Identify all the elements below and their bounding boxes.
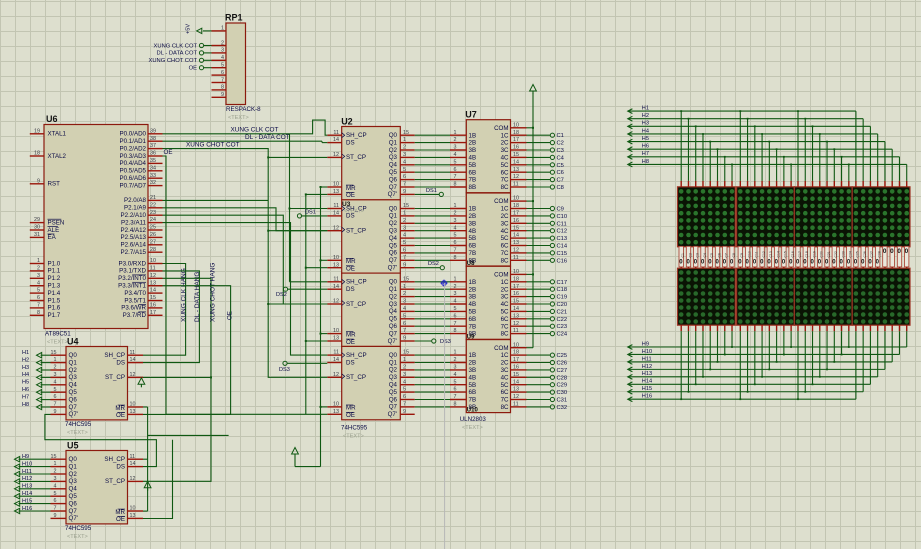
- resistor R22 between matrix strips: [832, 246, 838, 268]
- svg-text:C15: C15: [784, 251, 788, 257]
- resistor R31 between matrix strips: [897, 246, 901, 268]
- wire U2 chip3 Q6 to U7 chip3 7B: [415, 325, 450, 327]
- svg-text:XUNG CLK COT: XUNG CLK COT: [154, 43, 198, 49]
- U6 pin 7 P1.6: [30, 303, 61, 312]
- terminal C9: [527, 206, 564, 212]
- svg-text:DL - DATA COT: DL - DATA COT: [157, 51, 198, 57]
- svg-text:10: 10: [130, 402, 136, 408]
- wire from U6 P2.1 down: [163, 208, 328, 231]
- svg-text:C24: C24: [557, 332, 568, 338]
- U2 chip2 left pin 10: [327, 255, 341, 261]
- wire U2 chip2 Q7 to U7 chip2 8B: [415, 259, 450, 261]
- U4 output Q1 pin 1: [51, 357, 67, 363]
- svg-text:12: 12: [333, 299, 339, 305]
- svg-text:Q0: Q0: [389, 132, 398, 139]
- svg-text:MR: MR: [346, 331, 356, 338]
- svg-text:P1.5: P1.5: [48, 297, 61, 304]
- svg-text:10: 10: [333, 402, 339, 408]
- U2 chip3 output Q5 pin 5: [400, 313, 414, 319]
- svg-text:P0.5/AD5: P0.5/AD5: [120, 168, 147, 175]
- svg-text:C21: C21: [827, 251, 831, 257]
- svg-text:P3.0/RXD: P3.0/RXD: [118, 260, 146, 267]
- svg-text:C7: C7: [557, 178, 564, 184]
- resistor R24 between matrix strips: [847, 246, 853, 268]
- svg-text:3C: 3C: [501, 147, 509, 154]
- svg-text:H9: H9: [22, 454, 29, 460]
- U7 chip1 output 1C pin 18: [511, 130, 527, 136]
- svg-text:17: 17: [513, 137, 519, 143]
- svg-text:6: 6: [37, 295, 40, 301]
- svg-text:33: 33: [150, 173, 156, 179]
- svg-text:5C: 5C: [501, 162, 509, 169]
- wire U2 chip1 Q2 to U7 chip1 3B: [415, 149, 450, 151]
- svg-text:C19: C19: [812, 251, 816, 257]
- svg-text:11: 11: [333, 130, 339, 136]
- U6 pin 5 P1.4: [30, 288, 61, 297]
- svg-text:32: 32: [150, 180, 156, 186]
- terminal DS3 source at U2 chip3 Q7': [415, 339, 451, 345]
- U2 chip3 output Q0 pin 15: [400, 276, 414, 282]
- U7 chip4 output 3C pin 16: [511, 365, 527, 371]
- shift register U4 74HC595: [66, 336, 128, 420]
- U6 pin 31 EA: [30, 232, 57, 241]
- wire net OE COT from U6 P0.3 down to U2 OE bus: [163, 149, 328, 415]
- resistor R27 between matrix strips: [868, 246, 874, 268]
- net H1 row wire to top matrix: [628, 106, 856, 187]
- U4 output Q2 pin 2: [51, 365, 67, 371]
- svg-text:U5: U5: [67, 440, 79, 450]
- svg-text:C12: C12: [762, 251, 766, 257]
- wire U2 chip3 Q5 to U7 chip3 6B: [415, 318, 450, 320]
- svg-text:6C: 6C: [501, 316, 509, 323]
- net H14 row wire to bottom matrix: [628, 325, 871, 387]
- svg-text:C28: C28: [877, 251, 881, 257]
- resistor R16 between matrix strips: [789, 246, 795, 268]
- terminal C10: [527, 214, 568, 220]
- svg-text:OE: OE: [164, 149, 173, 156]
- svg-text:29: 29: [34, 217, 40, 223]
- svg-text:5: 5: [454, 159, 457, 165]
- U2 chip3 output Q2 pin 2: [400, 291, 414, 297]
- svg-text:<TEXT>: <TEXT>: [343, 434, 364, 440]
- svg-text:1: 1: [37, 258, 40, 264]
- svg-text:9: 9: [403, 262, 406, 268]
- svg-text:6C: 6C: [501, 169, 509, 176]
- svg-text:P3.2/INT0: P3.2/INT0: [118, 275, 146, 282]
- svg-text:3: 3: [403, 372, 406, 378]
- power +5V symbol above U7: [530, 85, 537, 95]
- svg-text:ST_CP: ST_CP: [346, 374, 366, 381]
- U7 chip2 output 4C pin 15: [511, 225, 527, 231]
- svg-text:12: 12: [513, 321, 519, 327]
- svg-text:7: 7: [37, 303, 40, 309]
- svg-text:24: 24: [150, 217, 156, 223]
- svg-text:13: 13: [513, 313, 519, 319]
- dot matrix module bottom strip #2: [737, 268, 795, 325]
- U7 chip4 output 5C pin 14: [511, 379, 527, 385]
- terminal XUNG CLK COT at RP1 pin 2: [154, 43, 212, 49]
- U7 chip2 output 7C pin 12: [511, 248, 527, 254]
- U2 chip4 left pin 12: [327, 372, 341, 378]
- terminal C32: [527, 405, 568, 411]
- shift register U5 74HC595: [66, 440, 128, 524]
- svg-text:C2: C2: [557, 141, 564, 147]
- U4 right pin 10: [128, 402, 144, 408]
- svg-text:9: 9: [54, 409, 57, 415]
- svg-text:2B: 2B: [469, 360, 477, 367]
- svg-text:4: 4: [403, 379, 406, 385]
- resistor R13 between matrix strips: [767, 246, 773, 268]
- svg-text:C26: C26: [557, 361, 568, 367]
- svg-text:6: 6: [403, 248, 406, 254]
- wire OE bus vertical right of U2: [306, 194, 328, 414]
- svg-text:11: 11: [513, 402, 519, 408]
- svg-text:XUNG CHOT COT: XUNG CHOT COT: [186, 141, 240, 148]
- resistor R20 between matrix strips: [818, 246, 824, 268]
- U7 chip3 input 1B pin 1: [450, 276, 466, 282]
- resistor R5 between matrix strips: [708, 246, 714, 268]
- U2 chip3 output Q7 pin 7: [400, 328, 414, 334]
- svg-text:C29: C29: [557, 383, 568, 389]
- svg-text:15: 15: [403, 276, 409, 282]
- U7 chip3 output 2C pin 17: [511, 284, 527, 290]
- RP1 pin 6: [212, 70, 227, 76]
- svg-text:0: 0: [905, 248, 909, 255]
- wire U2 chip1 Q5 to U7 chip1 6B: [415, 171, 450, 173]
- svg-text:6: 6: [403, 321, 406, 327]
- U6 pin 32 P0.7/AD7: [120, 180, 163, 189]
- resistor R29 between matrix strips: [883, 246, 887, 268]
- U2 chip1 left pin 10: [327, 182, 341, 188]
- svg-text:5: 5: [221, 63, 224, 69]
- terminal C14: [527, 243, 568, 249]
- U2 chip4 output Q1 pin 1: [400, 357, 414, 363]
- U7 chip2 input 5B pin 5: [450, 233, 466, 239]
- power symbol for U2 MR net: [292, 448, 299, 455]
- svg-text:H5: H5: [22, 380, 29, 386]
- U5 right pin 13: [128, 513, 144, 519]
- svg-text:3: 3: [403, 152, 406, 158]
- U6 pin 26 P2.5/A13: [121, 232, 163, 241]
- svg-text:C18: C18: [805, 251, 809, 257]
- svg-text:16: 16: [513, 365, 519, 371]
- svg-text:P2.0/A8: P2.0/A8: [124, 197, 147, 204]
- svg-text:3: 3: [454, 291, 457, 297]
- svg-text:8C: 8C: [501, 331, 509, 338]
- svg-text:74HC595: 74HC595: [65, 421, 92, 428]
- RP1 pin 5: [212, 63, 227, 69]
- svg-text:10: 10: [150, 258, 156, 264]
- resistor R15 between matrix strips: [782, 246, 788, 268]
- svg-text:14: 14: [333, 284, 339, 290]
- svg-text:4: 4: [403, 233, 406, 239]
- terminal DS1 dest at U2 chip2 DS: [297, 210, 327, 218]
- U7 chip1 input 3B pin 3: [450, 145, 466, 151]
- svg-text:C6: C6: [717, 253, 721, 257]
- U5 output Q4 pin 4: [51, 483, 67, 489]
- svg-text:C9: C9: [557, 207, 564, 213]
- U2 chip2 output Q7' pin 9: [400, 262, 414, 268]
- U7 chip1 output 7C pin 12: [511, 174, 527, 180]
- U5 output Q7' pin 9: [51, 513, 67, 519]
- svg-text:18: 18: [513, 203, 519, 209]
- U7 chip4 output 6C pin 13: [511, 387, 527, 393]
- svg-text:2C: 2C: [501, 140, 509, 147]
- svg-text:OE: OE: [346, 266, 355, 273]
- resistor R1 between matrix strips: [679, 246, 685, 268]
- U6 pin 39 P0.0/AD0: [120, 128, 163, 137]
- svg-text:C23: C23: [557, 324, 568, 330]
- darlington driver ULN2803 chip 4 of U7 column: [466, 340, 510, 414]
- svg-text:ST_CP: ST_CP: [105, 478, 125, 485]
- svg-text:DS: DS: [346, 139, 355, 146]
- svg-text:9: 9: [54, 513, 57, 519]
- U5 output Q2 pin 2: [51, 469, 67, 475]
- svg-text:8: 8: [454, 182, 457, 188]
- terminal C3: [527, 148, 564, 154]
- svg-text:C15: C15: [557, 251, 568, 257]
- net H9 row wire to bottom matrix: [628, 325, 907, 349]
- svg-text:7: 7: [454, 248, 457, 254]
- svg-text:Q4: Q4: [69, 382, 78, 389]
- U2 chip4 output Q5 pin 5: [400, 387, 414, 393]
- svg-text:13: 13: [130, 513, 136, 519]
- svg-text:U7: U7: [465, 110, 477, 120]
- svg-text:P1.4: P1.4: [48, 290, 61, 297]
- svg-text:Q2: Q2: [69, 471, 78, 478]
- svg-text:P0.7/AD7: P0.7/AD7: [120, 182, 147, 189]
- svg-text:7B: 7B: [469, 250, 477, 257]
- dot matrix module bottom strip #3: [794, 268, 852, 325]
- svg-text:16: 16: [150, 303, 156, 309]
- U6 pin 12 P3.2/INT0: [118, 273, 162, 282]
- svg-text:8B: 8B: [469, 184, 477, 191]
- svg-text:OE: OE: [346, 192, 355, 199]
- svg-text:4C: 4C: [501, 228, 509, 235]
- svg-text:12: 12: [333, 152, 339, 158]
- svg-text:Q7: Q7: [389, 184, 398, 191]
- svg-text:H2: H2: [642, 113, 649, 119]
- wire net XUNG CLK COT from U6 P0.0 to U2 SH_CP: [163, 120, 328, 135]
- svg-text:<TEXT>: <TEXT>: [228, 115, 249, 121]
- svg-text:H1: H1: [642, 106, 649, 112]
- svg-text:1: 1: [454, 130, 457, 136]
- terminal C25: [527, 353, 568, 359]
- svg-text:8: 8: [454, 328, 457, 334]
- svg-text:6: 6: [54, 394, 57, 400]
- net label H14 wire: [15, 491, 51, 499]
- svg-text:0: 0: [883, 248, 887, 255]
- wire net OE HANG from U6 P3.3 to U4 OE: [143, 286, 234, 415]
- svg-text:12: 12: [130, 476, 136, 482]
- svg-text:P0.1/AD1: P0.1/AD1: [120, 138, 147, 145]
- svg-text:2: 2: [454, 137, 457, 143]
- wire XUNG CHOT branch to U2 chip1 ST_CP: [268, 156, 327, 158]
- svg-text:6: 6: [454, 167, 457, 173]
- svg-text:11: 11: [513, 182, 519, 188]
- terminal C26: [527, 360, 568, 366]
- RP1 pin 4: [212, 55, 227, 61]
- svg-text:Q7: Q7: [389, 330, 398, 337]
- svg-text:7C: 7C: [501, 250, 509, 257]
- U6 pin 23 P2.2/A10: [121, 210, 163, 219]
- svg-text:C14: C14: [776, 251, 780, 257]
- U2 chip1 output Q7 pin 7: [400, 182, 414, 188]
- net label H12 wire: [15, 476, 51, 484]
- U7 chip1 input 1B pin 1: [450, 130, 466, 136]
- svg-text:P1.2: P1.2: [48, 275, 61, 282]
- U2 chip3 output Q3 pin 3: [400, 299, 414, 305]
- svg-text:Q0: Q0: [389, 352, 398, 359]
- U7 chip2 input 3B pin 3: [450, 218, 466, 224]
- svg-text:SH_CP: SH_CP: [346, 132, 367, 139]
- wire U2 chip1 Q4 to U7 chip1 5B: [415, 164, 450, 166]
- svg-text:4: 4: [37, 280, 40, 286]
- svg-text:13: 13: [333, 189, 339, 195]
- svg-text:RESPACK-8: RESPACK-8: [226, 106, 261, 113]
- svg-text:31: 31: [34, 232, 40, 238]
- svg-text:1C: 1C: [501, 132, 509, 139]
- wire U2 chip4 Q1 to U7 chip4 2B: [415, 362, 450, 364]
- U2 chip1 left pin 14: [327, 137, 341, 143]
- svg-text:P3.3/INT1: P3.3/INT1: [118, 283, 146, 290]
- svg-text:5: 5: [54, 387, 57, 393]
- svg-text:Q0: Q0: [389, 279, 398, 286]
- resistor R4 between matrix strips: [701, 246, 707, 268]
- svg-text:H14: H14: [22, 491, 32, 497]
- svg-text:Q7: Q7: [389, 257, 398, 264]
- svg-text:8: 8: [454, 255, 457, 261]
- U7 chip4 input 6B pin 6: [450, 387, 466, 393]
- U2 chip2 left pin 14: [327, 211, 341, 217]
- svg-text:C27: C27: [870, 251, 874, 257]
- svg-text:27: 27: [150, 239, 156, 245]
- svg-text:5: 5: [403, 240, 406, 246]
- terminal C4: [527, 155, 565, 161]
- wire net XUNG CHOT COT from U6 P0.2 down column bus: [163, 141, 328, 377]
- svg-text:P0.0/AD0: P0.0/AD0: [120, 131, 147, 138]
- U2 chip1 output Q4 pin 4: [400, 159, 414, 165]
- svg-text:14: 14: [513, 306, 519, 312]
- net H13 row wire to bottom matrix: [628, 325, 878, 379]
- svg-text:<TEXT>: <TEXT>: [47, 340, 68, 346]
- svg-text:1: 1: [454, 276, 457, 282]
- svg-text:H4: H4: [642, 128, 649, 134]
- U5 right pin 11: [128, 454, 144, 460]
- svg-text:MR: MR: [115, 509, 125, 516]
- svg-text:P2.1/A9: P2.1/A9: [124, 205, 147, 212]
- gray marker line: [444, 283, 446, 549]
- svg-text:Q0: Q0: [69, 456, 78, 463]
- U2 chip3 left pin 13: [327, 336, 341, 342]
- U7 chip2 input 4B pin 4: [450, 225, 466, 231]
- svg-text:P2.4/A12: P2.4/A12: [121, 227, 147, 234]
- svg-text:7: 7: [403, 328, 406, 334]
- U7 chip3 output 7C pin 12: [511, 321, 527, 327]
- svg-text:Q7': Q7': [388, 191, 397, 198]
- svg-text:4: 4: [54, 379, 57, 385]
- svg-text:1C: 1C: [501, 352, 509, 359]
- terminal C21: [527, 309, 568, 315]
- shift register 74HC595 chip 4 of U2 column: [342, 346, 401, 419]
- svg-text:6: 6: [454, 387, 457, 393]
- svg-text:37: 37: [150, 143, 156, 149]
- net H6 row wire to top matrix: [628, 144, 892, 187]
- svg-text:C1: C1: [681, 253, 685, 257]
- svg-text:H1: H1: [22, 350, 29, 356]
- wire XUNG CHOT branch to U2 chip3 ST_CP: [268, 303, 327, 305]
- svg-text:11: 11: [150, 266, 156, 272]
- wire U2 chip4 Q0 to U7 chip4 1B: [415, 354, 450, 356]
- svg-text:Q6: Q6: [389, 250, 398, 257]
- U6 pin 18 XTAL2: [30, 151, 67, 160]
- resistor R23 between matrix strips: [839, 246, 845, 268]
- wire U2 chip2 Q6 to U7 chip2 7B: [415, 252, 450, 254]
- U7 chip3 output 1C pin 18: [511, 276, 527, 282]
- svg-text:H8: H8: [642, 159, 649, 165]
- svg-text:Q5: Q5: [389, 316, 398, 323]
- terminal C18: [527, 287, 568, 293]
- wire XUNG CHOT branch to U2 chip2 ST_CP: [268, 230, 327, 232]
- svg-text:14: 14: [513, 233, 519, 239]
- svg-text:U6: U6: [46, 114, 58, 124]
- svg-text:15: 15: [513, 372, 519, 378]
- svg-text:Q5: Q5: [389, 242, 398, 249]
- svg-text:RP1: RP1: [225, 13, 243, 23]
- U6 pin 8 P1.7: [30, 310, 61, 319]
- U6 pin 28 P2.7/A15: [121, 247, 163, 256]
- svg-text:5B: 5B: [469, 235, 477, 242]
- U7 chip3 input 6B pin 6: [450, 313, 466, 319]
- wire U4 Q7' cascade to U5 DS: [45, 414, 156, 466]
- U6 pin 2 P1.1: [30, 266, 61, 275]
- svg-text:Q7': Q7': [388, 411, 397, 418]
- svg-text:6B: 6B: [469, 243, 477, 250]
- U7 chip1 output 5C pin 14: [511, 159, 527, 165]
- svg-text:H5: H5: [642, 136, 649, 142]
- U6 pin 10 P3.0/RXD: [118, 258, 162, 267]
- svg-text:16: 16: [513, 291, 519, 297]
- svg-text:C2: C2: [688, 253, 692, 257]
- U2 chip1 output Q2 pin 2: [400, 145, 414, 151]
- U7 chip1 input 5B pin 5: [450, 159, 466, 165]
- svg-text:Q6: Q6: [389, 176, 398, 183]
- U2 chip4 output Q7' pin 9: [400, 409, 414, 415]
- U7 chip3 COM pin 10: [511, 269, 527, 275]
- terminal DL - DATA COT at RP1 pin 3: [157, 51, 212, 57]
- svg-text:Q6: Q6: [69, 500, 78, 507]
- U7 chip4 input 1B pin 1: [450, 350, 466, 356]
- svg-text:2C: 2C: [501, 213, 509, 220]
- svg-text:15: 15: [150, 295, 156, 301]
- svg-text:C9: C9: [740, 253, 744, 257]
- U7 chip4 input 2B pin 2: [450, 357, 466, 363]
- wire U2 chip2 Q2 to U7 chip2 3B: [415, 222, 450, 224]
- svg-text:Q1: Q1: [69, 463, 78, 470]
- svg-text:10: 10: [333, 255, 339, 261]
- power symbol at U4 ST_CP area: [138, 378, 145, 385]
- net label H4 wire: [22, 372, 51, 380]
- wire U2 chip3 Q3 to U7 chip3 4B: [415, 303, 450, 305]
- svg-text:10: 10: [333, 328, 339, 334]
- resistor R32 between matrix strips: [905, 246, 909, 268]
- svg-text:Q5: Q5: [69, 493, 78, 500]
- svg-text:C17: C17: [557, 280, 568, 286]
- svg-text:Q3: Q3: [389, 228, 398, 235]
- net label H10 wire: [15, 461, 51, 469]
- svg-text:DS1: DS1: [305, 210, 316, 216]
- net H3 row wire to top matrix: [628, 121, 871, 187]
